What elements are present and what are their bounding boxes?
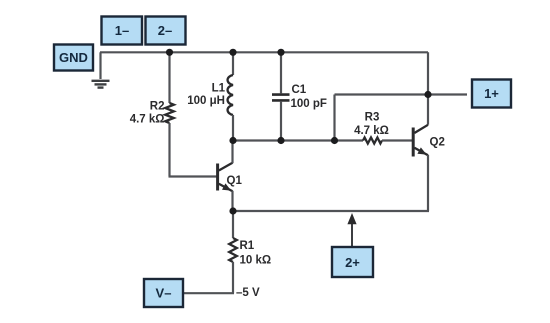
wire C1 top lead [280, 52, 282, 93]
wire to V- box [184, 292, 235, 294]
wire feedback vertical [333, 95, 335, 141]
terminal box 1+ [472, 80, 511, 108]
node top rail / R2 junction [166, 49, 173, 56]
svg-text:1+: 1+ [484, 86, 499, 101]
terminal box GND [54, 45, 93, 71]
wire Q1 collector vertical [231, 141, 233, 164]
terminal box 1- [102, 17, 143, 45]
transistor Q1 [218, 163, 233, 194]
svg-text:1–: 1– [115, 23, 129, 38]
wire Q1 base lead [169, 175, 217, 177]
label C1 value [291, 84, 327, 110]
wire Q2 emitter vertical [427, 155, 429, 211]
node top rail / L1 junction [229, 49, 236, 56]
wire R3 to Q2 base [382, 139, 412, 141]
svg-text:10 kΩ: 10 kΩ [240, 255, 272, 267]
terminal box 2- [146, 17, 186, 45]
ground [92, 81, 110, 88]
inductor L1 [228, 75, 233, 115]
node mid rail / L1 junction [229, 137, 236, 144]
wire R2 branch vertical upper [168, 52, 170, 103]
svg-text:Q2: Q2 [430, 137, 445, 149]
wire R2 branch vertical lower [168, 123, 170, 177]
wire Q1 emitter vertical [231, 191, 233, 211]
node mid rail / C1 junction [277, 137, 284, 144]
svg-text:C1: C1 [292, 84, 307, 96]
svg-text:2+: 2+ [345, 255, 360, 270]
svg-text:L1: L1 [212, 83, 226, 95]
wire C1 bottom lead [280, 102, 282, 141]
wire mid rail [233, 139, 363, 141]
svg-text:100 μH: 100 μH [187, 95, 225, 107]
resistor R2 [165, 103, 174, 123]
wire 2+ arrow stem [351, 223, 353, 247]
transistor Q2 [413, 125, 428, 158]
wire emitter rail [233, 210, 429, 212]
capacitor C1 [272, 95, 290, 101]
wire R1 top lead [232, 211, 234, 238]
svg-text:R2: R2 [150, 101, 165, 113]
wire ground stem [99, 52, 101, 79]
svg-text:–5 V: –5 V [236, 287, 260, 299]
node output / collector junction [424, 91, 431, 98]
svg-text:2–: 2– [158, 23, 172, 38]
node mid rail / feedback junction [331, 137, 338, 144]
wire R1 bottom lead [232, 262, 234, 293]
label L1 value [187, 83, 225, 108]
svg-text:100 pF: 100 pF [291, 98, 327, 110]
wire Q2 collector vertical [427, 52, 429, 125]
node top rail / C1 junction [277, 49, 284, 56]
resistor R1 [229, 238, 237, 262]
label R2 value [130, 101, 165, 126]
terminal box 2+ [332, 247, 373, 277]
svg-text:4.7 kΩ: 4.7 kΩ [130, 114, 165, 126]
label R1 value [240, 240, 272, 267]
svg-text:GND: GND [59, 50, 88, 65]
wire L1 bottom lead [232, 115, 234, 141]
svg-text:Q1: Q1 [227, 175, 243, 187]
wire top rail [100, 51, 428, 53]
svg-text:4.7 kΩ: 4.7 kΩ [354, 125, 389, 137]
2+ arrowhead [347, 213, 356, 224]
terminal box V- [144, 279, 183, 307]
wire L1 top lead [232, 52, 234, 75]
svg-text:R1: R1 [240, 240, 255, 252]
svg-text:R3: R3 [365, 112, 380, 124]
label R3 value [354, 112, 389, 138]
resistor R3 [363, 138, 382, 144]
node emitter rail junction [229, 207, 236, 214]
svg-text:V–: V– [156, 286, 172, 301]
wire output rail to 1+ [335, 93, 468, 95]
